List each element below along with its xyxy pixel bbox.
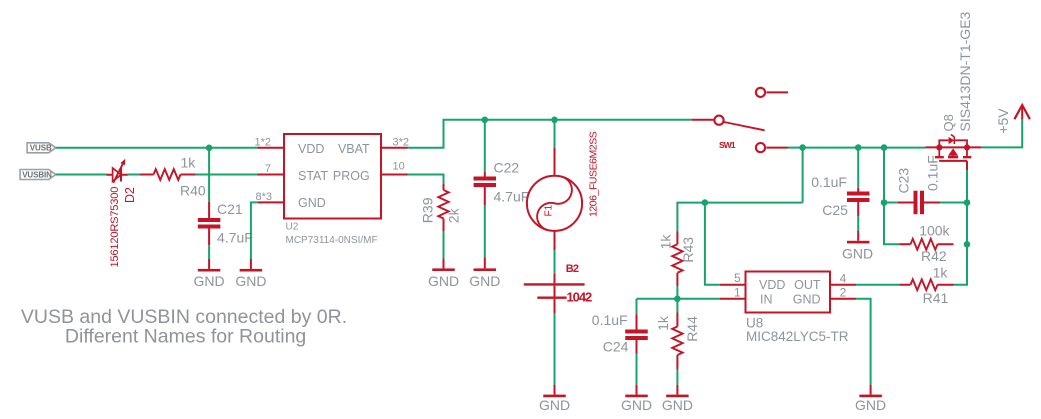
resistor R40 <box>140 169 196 180</box>
wire down from switch output <box>802 148 804 203</box>
junction C23 column <box>881 144 888 151</box>
svg-text:VDD: VDD <box>759 278 785 292</box>
svg-text:SIS413DN-T1-GE3: SIS413DN-T1-GE3 <box>957 11 973 131</box>
ground R44 <box>662 385 693 413</box>
battery B2 <box>524 274 585 313</box>
wire VUSB to U2 VDD <box>56 147 258 149</box>
svg-text:D2: D2 <box>123 187 137 203</box>
svg-text:1042: 1042 <box>567 290 593 305</box>
svg-text:GND: GND <box>539 397 570 413</box>
resistor R42 <box>899 239 953 250</box>
svg-text:GND: GND <box>855 397 886 413</box>
svg-text:VBAT: VBAT <box>338 142 370 156</box>
wire F1 to B2 <box>554 250 556 274</box>
wire C24 to gnd <box>636 354 638 385</box>
ground C24 <box>621 385 652 413</box>
junction R42 right <box>964 241 971 248</box>
svg-text:7: 7 <box>265 163 271 175</box>
svg-text:R42: R42 <box>921 248 947 264</box>
op-amp U2 MCP73114 box <box>284 134 381 219</box>
wire PROG to R39 <box>408 175 444 185</box>
svg-text:IN: IN <box>760 292 773 306</box>
svg-text:2k: 2k <box>446 207 462 223</box>
capacitor C21 <box>198 202 221 245</box>
svg-text:GND: GND <box>662 397 693 413</box>
svg-text:C25: C25 <box>822 202 848 218</box>
resistor R39 <box>438 184 448 231</box>
svg-text:100k: 100k <box>919 223 950 239</box>
net flag VUSB <box>27 143 56 153</box>
svg-text:OUT: OUT <box>794 278 821 292</box>
wire bus to SW1 <box>692 119 714 121</box>
junction VUSB/C21 <box>206 145 213 152</box>
svg-text:GND: GND <box>842 245 873 261</box>
wire F1 top <box>554 120 556 147</box>
capacitor C25 <box>847 188 870 216</box>
svg-text:B2: B2 <box>566 263 579 275</box>
ground C25 <box>842 231 873 261</box>
svg-text:GND: GND <box>235 273 266 289</box>
wire SW1 to Q8 <box>788 147 925 149</box>
svg-text:R40: R40 <box>180 183 206 199</box>
resistor R44 <box>672 299 682 369</box>
wire R44 to gnd <box>676 369 678 385</box>
svg-text:R43: R43 <box>680 237 696 263</box>
ground C22 <box>469 258 500 289</box>
svg-text:STAT: STAT <box>298 169 328 183</box>
wire right column <box>954 170 968 285</box>
net flag VUSBIN <box>20 170 56 180</box>
junction switch-output / R43 bus <box>799 144 806 151</box>
junction C25 <box>855 144 862 151</box>
svg-text:0.1uF: 0.1uF <box>592 312 628 328</box>
svg-text:Different Names for Routing: Different Names for Routing <box>65 325 306 347</box>
svg-text:GND: GND <box>793 292 821 306</box>
svg-text:3*2: 3*2 <box>393 136 410 148</box>
supply +5V <box>1014 105 1030 119</box>
svg-text:Q8: Q8 <box>941 114 956 131</box>
svg-text:GND: GND <box>298 196 326 210</box>
junction top bus / C22 <box>482 117 489 124</box>
svg-text:1k: 1k <box>933 264 949 280</box>
ground U8 <box>855 385 886 413</box>
fuse F1 <box>527 147 582 250</box>
wire C24/U8 IN net <box>637 298 720 300</box>
wire B2 to gnd <box>554 313 556 385</box>
diode D2 <box>107 159 129 183</box>
transistor Q8 P-MOSFET <box>925 135 981 170</box>
svg-text:C22: C22 <box>494 159 520 175</box>
svg-text:+5V: +5V <box>995 108 1011 134</box>
wire D2 to R40 <box>127 174 140 176</box>
svg-text:5: 5 <box>734 271 741 285</box>
svg-text:C24: C24 <box>603 338 629 354</box>
ground R39 <box>428 259 459 289</box>
svg-text:U8: U8 <box>746 315 763 330</box>
svg-text:1: 1 <box>734 285 741 299</box>
ground B2 <box>539 385 570 413</box>
ground C21 <box>194 259 225 289</box>
svg-text:U2: U2 <box>286 222 299 233</box>
svg-text:VDD: VDD <box>298 142 324 156</box>
wire U8 GND to gnd <box>856 299 871 385</box>
capacitor C23 <box>884 191 967 215</box>
U2 pin stubs <box>258 148 408 203</box>
svg-text:GND: GND <box>469 273 500 289</box>
svg-text:0.1uF: 0.1uF <box>811 174 847 190</box>
svg-text:2: 2 <box>840 286 847 300</box>
svg-text:MCP73114-0NSI/MF: MCP73114-0NSI/MF <box>286 235 378 246</box>
wire C25 top <box>857 148 859 188</box>
svg-text:4.7uF: 4.7uF <box>217 230 253 246</box>
ground U2 <box>235 259 266 289</box>
wire VUSBIN to D2 <box>56 174 107 176</box>
wire C22 top <box>484 120 486 172</box>
wire R39 to gnd <box>443 231 445 259</box>
svg-text:1k: 1k <box>655 315 671 331</box>
svg-text:4.7uF: 4.7uF <box>494 189 530 205</box>
svg-text:1*2: 1*2 <box>254 136 271 148</box>
wire C24 top <box>636 299 638 314</box>
svg-text:R41: R41 <box>923 290 949 306</box>
svg-text:GND: GND <box>428 273 459 289</box>
svg-text:VUSBIN: VUSBIN <box>22 170 52 179</box>
switch SW1 <box>714 88 788 152</box>
wire C25 to gnd <box>857 216 859 231</box>
wire VBAT up to top bus <box>408 120 692 148</box>
svg-text:C23: C23 <box>896 168 912 194</box>
op-amp U8 MIC842 box <box>746 272 831 313</box>
svg-text:8*3: 8*3 <box>255 191 272 203</box>
svg-text:C21: C21 <box>217 201 243 217</box>
wire C23 left column <box>884 148 899 245</box>
svg-text:R39: R39 <box>420 197 436 223</box>
capacitor C24 <box>625 314 648 353</box>
svg-text:1k: 1k <box>181 154 197 170</box>
wire Q8 to +5V <box>981 119 1022 147</box>
wire junction to U8 VDD <box>705 203 720 285</box>
U8 pin stubs <box>720 285 856 299</box>
resistor R41 <box>899 279 953 290</box>
svg-text:1k: 1k <box>658 234 674 250</box>
resistor R43 <box>672 232 682 287</box>
svg-text:PROG: PROG <box>333 169 370 183</box>
svg-text:4: 4 <box>840 271 847 285</box>
svg-text:156120RS75300: 156120RS75300 <box>109 187 121 268</box>
wire U8 OUT to R41 <box>856 284 899 286</box>
svg-text:GND: GND <box>194 273 225 289</box>
capacitor C22 <box>474 172 497 205</box>
svg-text:10: 10 <box>393 161 405 173</box>
junction C23 left <box>881 199 888 206</box>
svg-text:1206_FUSE6M2SS: 1206_FUSE6M2SS <box>588 131 600 217</box>
svg-text:SW1: SW1 <box>719 140 736 150</box>
svg-text:0.1uF: 0.1uF <box>925 155 941 191</box>
junction C23 right <box>964 199 971 206</box>
svg-text:MIC842LYC5-TR: MIC842LYC5-TR <box>746 329 849 344</box>
wire U2 GND pin to gnd <box>251 202 258 259</box>
wire R40 to U2 STAT <box>196 174 258 176</box>
wire C22 to gnd <box>484 205 486 258</box>
junction R43/R44/C24/U8-IN <box>674 296 681 303</box>
wire C21 to gnd <box>208 245 210 259</box>
wire junction down to C21 <box>208 148 210 202</box>
svg-text:R44: R44 <box>684 316 700 342</box>
wire R43 bus <box>677 203 802 232</box>
svg-text:F1: F1 <box>544 204 555 216</box>
junction top bus / F1 <box>551 117 558 124</box>
svg-text:VUSB: VUSB <box>30 144 52 153</box>
svg-text:GND: GND <box>621 397 652 413</box>
junction U8 VDD drop <box>702 199 709 206</box>
wire R43 to pin1 net <box>676 286 678 299</box>
